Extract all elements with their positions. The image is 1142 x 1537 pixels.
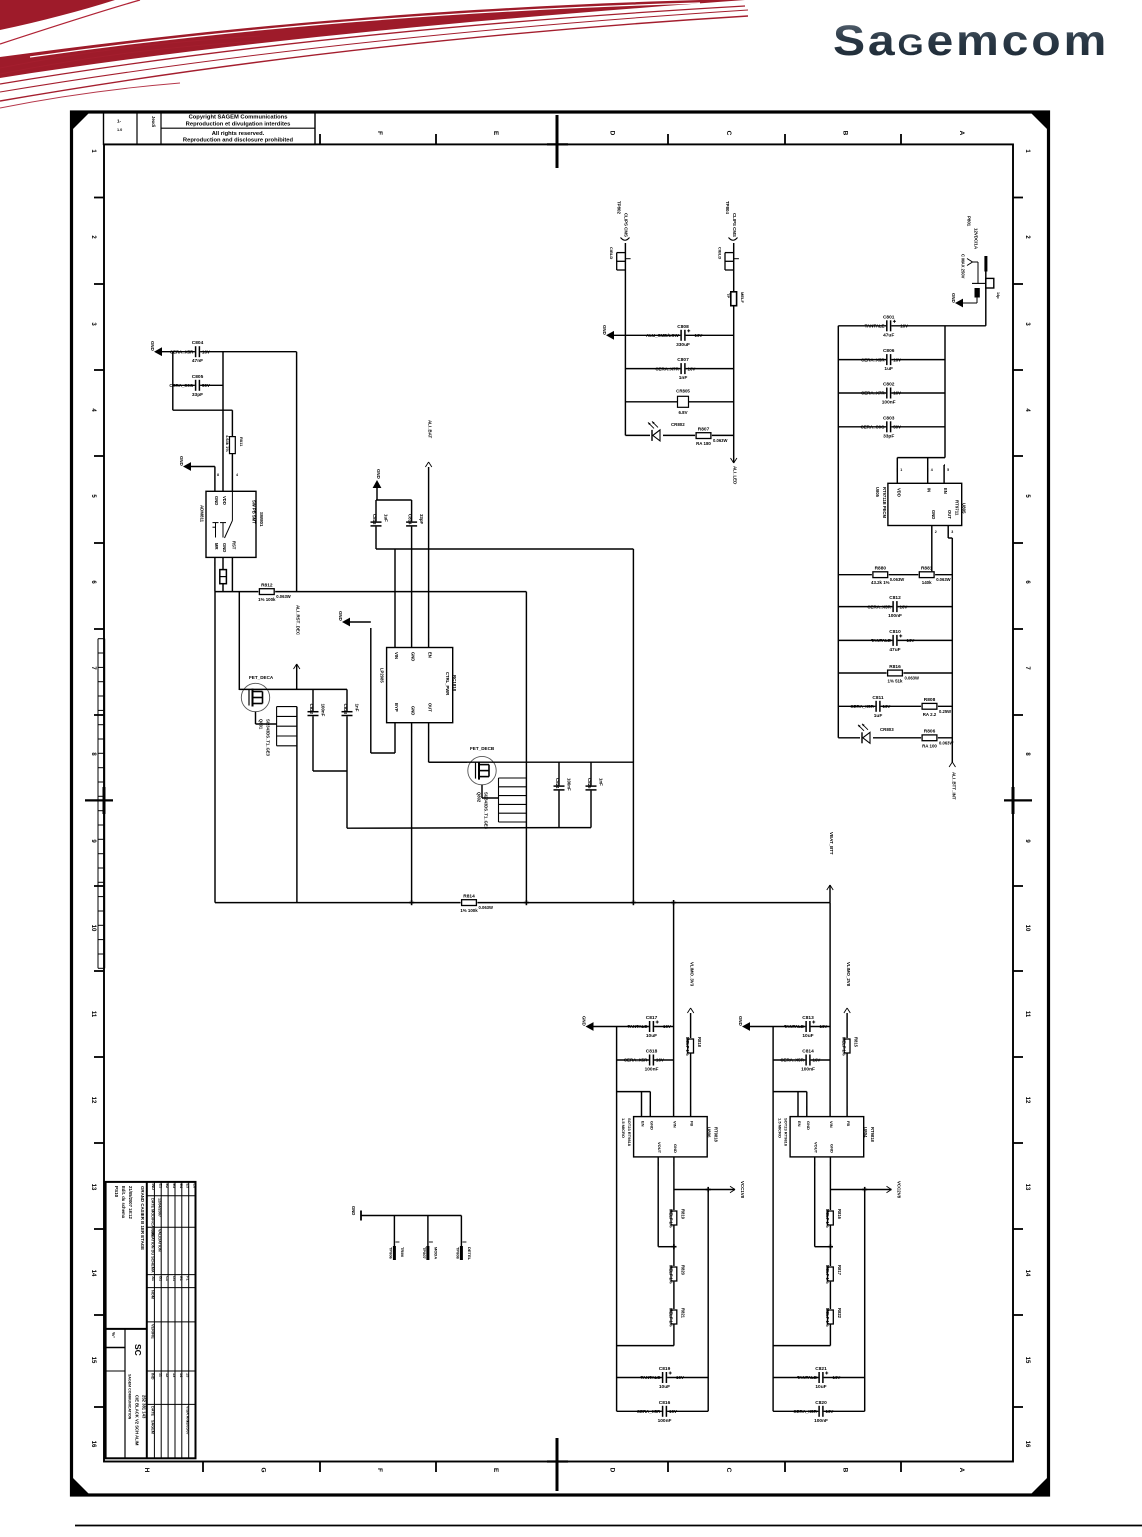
svg-text:15: 15: [186, 1373, 190, 1377]
op-amp U803 ADM811: [200, 491, 265, 557]
op-amp U804: [778, 1117, 875, 1157]
svg-text:U804: U804: [863, 1127, 868, 1138]
svg-text:16V: 16V: [826, 1409, 834, 1414]
svg-text:100nF: 100nF: [801, 1067, 815, 1073]
svg-text:0.063W: 0.063W: [905, 676, 919, 681]
svg-text:C807: C807: [677, 357, 689, 363]
node ALI_RST_DEC: [294, 605, 301, 689]
svg-text:CR805: CR805: [676, 389, 690, 394]
svg-text:C: C: [725, 131, 732, 136]
ground strap testpoints: [351, 1206, 472, 1261]
svg-text:E6: E6: [193, 1184, 197, 1189]
capacitor C803: [861, 415, 902, 439]
wire output pins: [815, 1157, 831, 1247]
ground: [738, 1016, 750, 1031]
svg-text:U805: U805: [962, 503, 967, 514]
svg-text:14p: 14p: [996, 292, 1000, 299]
svg-text:TP807: TP807: [422, 1247, 427, 1260]
svg-text:R806: R806: [924, 729, 936, 735]
svg-text:1nF: 1nF: [355, 704, 360, 712]
frame centre mark top: [547, 115, 568, 168]
svg-text:CIE BLACK V2 SCH ALIM: CIE BLACK V2 SCH ALIM: [135, 1395, 140, 1446]
svg-text:CERA_X5R: CERA_X5R: [850, 704, 874, 709]
svg-text:VERIFIE: VERIFIE: [151, 1324, 155, 1339]
svg-text:C804: C804: [192, 340, 204, 346]
svg-text:1.5 MICRO: 1.5 MICRO: [621, 1118, 626, 1138]
svg-text:C808: C808: [677, 324, 689, 330]
wire feedback to rail: [617, 1345, 674, 1347]
svg-text:D: D: [609, 131, 616, 136]
svg-text:11: 11: [158, 1373, 162, 1377]
svg-text:1: 1: [90, 149, 96, 153]
svg-text:16V: 16V: [893, 391, 901, 396]
svg-text:H: H: [143, 1468, 150, 1473]
wire rung C811 R808: [838, 705, 952, 707]
svg-text:R815: R815: [854, 1037, 859, 1048]
node VCC2V8: [887, 1181, 902, 1199]
svg-text:C1: C1: [165, 1276, 169, 1281]
wire left cap rail: [172, 352, 174, 411]
svg-text:16V: 16V: [833, 1375, 841, 1380]
svg-text:1nF: 1nF: [599, 778, 604, 786]
capacitor C811: [850, 695, 890, 719]
wire Q802 source ladder: [482, 778, 526, 822]
svg-text:GND: GND: [806, 1121, 811, 1130]
svg-text:GRAND CASIER B 1ER ETAGE: GRAND CASIER B 1ER ETAGE: [140, 1186, 145, 1250]
svg-text:CERA_X5R: CERA_X5R: [867, 604, 891, 609]
svg-text:GND: GND: [376, 469, 381, 479]
svg-text:TANTALE: TANTALE: [627, 1024, 647, 1029]
svg-text:ALI_BAT: ALI_BAT: [428, 420, 433, 439]
svg-text:VBAT_BTT: VBAT_BTT: [829, 832, 834, 855]
wire input rail A: [673, 903, 675, 1117]
wire U802 bottom pins: [371, 628, 467, 903]
svg-text:1% 100k: 1% 100k: [460, 908, 478, 913]
wire cap rung C810: [838, 639, 952, 641]
svg-text:CIBLD: CIBLD: [609, 247, 614, 259]
svg-text:VCC2V8: VCC2V8: [897, 1181, 902, 1199]
svg-text:12: 12: [165, 1373, 169, 1377]
Sagemcom logo: [833, 20, 1109, 63]
capacitor C801: [865, 314, 908, 338]
capacitor C817: [627, 1015, 670, 1039]
decorative red swoosh header: [0, 0, 748, 108]
wire CR805 rung: [625, 401, 733, 403]
svg-text:Copyright SAGEM Communications: Copyright SAGEM Communications: [189, 115, 288, 121]
wire U802 top pins: [395, 549, 429, 648]
svg-text:EN: EN: [797, 1121, 802, 1127]
svg-text:IND: IND: [151, 1184, 155, 1191]
svg-text:C810: C810: [889, 629, 901, 635]
svg-text:C814: C814: [407, 514, 412, 525]
svg-text:12VDC/1A: 12VDC/1A: [974, 228, 979, 250]
wire output loop right: [862, 1187, 867, 1411]
svg-text:15: 15: [90, 1357, 96, 1364]
svg-text:13: 13: [1024, 1184, 1030, 1191]
capacitor C813: [370, 514, 389, 527]
wire C804 rung: [162, 351, 297, 353]
svg-text:ADM811: ADM811: [200, 505, 205, 523]
svg-text:11: 11: [1024, 1011, 1030, 1018]
svg-text:1: 1: [900, 468, 902, 472]
svg-text:16V: 16V: [813, 1058, 821, 1063]
capacitor C824: [553, 778, 572, 791]
wire rail to bus: [632, 549, 634, 903]
wire bottom bus: [215, 902, 830, 904]
svg-text:RT9711: RT9711: [955, 500, 960, 516]
wire output to arrow: [830, 1189, 891, 1191]
svg-text:Edit. du schema: Edit. du schema: [121, 1186, 126, 1219]
capacitor C819: [640, 1366, 683, 1390]
svg-text:43.2k 1%: 43.2k 1%: [871, 580, 890, 585]
svg-text:EN: EN: [428, 652, 433, 658]
wire input cap rung 2: [617, 1059, 674, 1061]
svg-text:RT9711B PECM: RT9711B PECM: [882, 487, 887, 518]
wire cap bracket U802: [376, 500, 633, 549]
wire U805 outputs: [932, 526, 953, 763]
svg-text:VALIDATION: VALIDATION: [158, 1229, 162, 1252]
svg-text:RT9818: RT9818: [713, 1127, 718, 1143]
svg-text:CERA_X5R: CERA_X5R: [793, 1409, 817, 1414]
svg-text:VDD: VDD: [896, 488, 901, 497]
svg-text:7: 7: [1024, 666, 1030, 670]
svg-text:CR802: CR802: [671, 422, 685, 427]
wire cap rung 1: [838, 325, 945, 327]
frame centre mark bottom: [547, 1438, 568, 1491]
capacitor C822: [307, 704, 326, 717]
svg-text:GND: GND: [411, 652, 416, 661]
svg-text:SC: SC: [133, 1344, 143, 1356]
svg-text:9: 9: [90, 839, 96, 843]
svg-text:C803: C803: [883, 415, 895, 421]
node ALI_LED: [731, 458, 738, 484]
wire enable bracket: [617, 1092, 691, 1117]
svg-text:14: 14: [1024, 1270, 1030, 1277]
svg-text:6.8V: 6.8V: [678, 410, 687, 415]
wire decoupling loop A: [313, 689, 347, 828]
ground: [373, 469, 382, 500]
svg-text:IN: IN: [927, 488, 932, 492]
svg-text:10: 10: [1024, 925, 1030, 932]
wire output cap rung 2: [773, 1410, 865, 1412]
svg-text:ALI_BTT_INT: ALI_BTT_INT: [951, 772, 956, 800]
svg-text:R880: R880: [875, 566, 887, 572]
svg-text:MELF 1%: MELF 1%: [825, 1265, 830, 1284]
wire LED rung: [625, 434, 733, 436]
svg-text:VIN: VIN: [829, 1121, 834, 1128]
capacitor C821: [797, 1366, 840, 1390]
svg-text:E1: E1: [179, 1276, 183, 1281]
svg-text:G: G: [260, 1467, 267, 1472]
svg-text:C MAX 250V: C MAX 250V: [961, 254, 966, 279]
svg-text:C819: C819: [659, 1366, 671, 1372]
wire R811 to U803: [217, 454, 238, 492]
capacitor C806: [861, 348, 901, 372]
svg-text:33pF: 33pF: [419, 514, 424, 525]
ground: [951, 293, 977, 307]
svg-text:2: 2: [1024, 235, 1030, 239]
capacitor C805: [169, 374, 210, 398]
capacitor C823: [341, 704, 360, 717]
capacitor C814: [780, 1049, 820, 1073]
svg-text:1uF: 1uF: [384, 514, 389, 522]
svg-text:10uF: 10uF: [646, 1033, 657, 1039]
svg-text:R816: R816: [889, 664, 901, 670]
svg-text:16V: 16V: [676, 1375, 684, 1380]
svg-text:CERA_X5R: CERA_X5R: [780, 1058, 804, 1063]
svg-text:C801: C801: [883, 314, 895, 320]
op-amp U802: [380, 648, 458, 723]
svg-text:TRIM: TRIM: [400, 1247, 405, 1257]
svg-text:C817: C817: [646, 1015, 658, 1021]
svg-text:50V: 50V: [893, 425, 901, 430]
svg-text:R816: R816: [837, 1209, 842, 1220]
svg-text:TANTALE: TANTALE: [640, 1375, 660, 1380]
svg-text:E2: E2: [165, 1184, 169, 1189]
svg-text:VDD: VDD: [222, 496, 227, 505]
capacitor C816: [637, 1400, 677, 1424]
svg-text:OUT: OUT: [947, 510, 952, 519]
svg-text:ALU_SMD/LOW: ALU_SMD/LOW: [646, 333, 680, 338]
inner drawing frame: [104, 144, 1013, 1461]
wire TP804 down: [733, 243, 735, 463]
svg-text:3: 3: [951, 530, 953, 534]
svg-text:330uF: 330uF: [676, 342, 690, 348]
svg-text:P801: P801: [967, 216, 972, 227]
svg-text:RA 2.2: RA 2.2: [923, 712, 937, 717]
svg-text:EN: EN: [641, 1121, 646, 1127]
svg-text:C806: C806: [883, 348, 895, 354]
svg-text:TANTALE: TANTALE: [865, 324, 885, 329]
resistor R815: [842, 1037, 859, 1056]
capacitor C804: [170, 340, 210, 364]
svg-text:GND: GND: [150, 341, 155, 351]
wire output to arrow: [674, 1189, 735, 1191]
svg-text:16V: 16V: [688, 366, 696, 371]
svg-text:CLIPS CMS: CLIPS CMS: [732, 213, 737, 237]
svg-text:16V: 16V: [663, 1024, 671, 1029]
svg-text:0.063W: 0.063W: [890, 577, 904, 582]
capacitor C813: [784, 1015, 827, 1039]
svg-text:8: 8: [217, 473, 219, 477]
svg-text:1.0: 1.0: [117, 128, 122, 132]
svg-text:11: 11: [90, 1011, 96, 1018]
svg-text:OUT: OUT: [428, 703, 433, 712]
svg-text:GND: GND: [738, 1016, 743, 1026]
svg-text:Reproduction et divulgation in: Reproduction et divulgation interdites: [186, 121, 291, 127]
svg-text:TP: TP: [726, 293, 731, 298]
LED CR803: [858, 724, 894, 744]
svg-text:Q802: Q802: [477, 792, 482, 803]
svg-text:U805: U805: [875, 487, 880, 498]
svg-text:2: 2: [935, 530, 937, 534]
svg-text:SAGEM: SAGEM: [151, 1420, 155, 1434]
svg-text:CERA_C0G: CERA_C0G: [861, 425, 885, 430]
svg-text:0.063W: 0.063W: [479, 905, 493, 910]
svg-text:DETEL: DETEL: [467, 1247, 472, 1261]
svg-text:C820: C820: [815, 1400, 827, 1406]
svg-text:RA 100: RA 100: [922, 743, 937, 748]
svg-text:C823: C823: [343, 704, 348, 715]
node VCC1V8: [730, 1181, 745, 1199]
capacitor C818: [624, 1049, 664, 1073]
wire Q801 drain: [239, 688, 313, 690]
svg-text:R820: R820: [680, 1265, 685, 1276]
svg-text:16V: 16V: [900, 324, 908, 329]
svg-text:100nF: 100nF: [658, 1418, 672, 1424]
svg-text:SOT23 RT9818: SOT23 RT9818: [627, 1118, 632, 1147]
svg-text:R811: R811: [239, 437, 244, 447]
svg-text:FET_DECB: FET_DECB: [470, 746, 495, 751]
svg-text:C822: C822: [309, 704, 314, 715]
svg-text:8: 8: [1024, 752, 1030, 756]
svg-text:TP808: TP808: [455, 1247, 460, 1260]
svg-text:16: 16: [1024, 1441, 1030, 1448]
wire C807 rung: [625, 368, 733, 370]
svg-text:VLIMO_2V8: VLIMO_2V8: [846, 962, 851, 987]
test point TP804: [725, 201, 738, 240]
wire from P801 to capacitor bank: [945, 271, 986, 326]
svg-text:CLIPS CMS: CLIPS CMS: [624, 213, 629, 237]
svg-text:MELF 1%: MELF 1%: [668, 1209, 673, 1228]
svg-text:C811: C811: [872, 695, 884, 701]
wire output cap rung 1: [617, 1377, 709, 1379]
svg-text:MR: MR: [214, 543, 219, 550]
svg-text:C821: C821: [815, 1366, 827, 1372]
svg-text:A1: A1: [151, 1276, 155, 1281]
svg-text:8: 8: [90, 752, 96, 756]
footer rule: [75, 1525, 1142, 1527]
wire vertical from C804 rung: [296, 352, 298, 592]
svg-text:FET_DECA: FET_DECA: [249, 675, 274, 680]
svg-text:RA 180: RA 180: [696, 441, 711, 446]
op-amp U805: [875, 483, 967, 525]
resistor R819: [668, 1209, 685, 1228]
svg-text:0.063W: 0.063W: [939, 740, 953, 745]
svg-text:0.063W: 0.063W: [936, 577, 950, 582]
svg-text:6: 6: [90, 580, 96, 584]
outer drawing frame: [72, 112, 1049, 1495]
svg-text:GND: GND: [179, 456, 184, 466]
svg-text:GND: GND: [582, 1016, 587, 1026]
resistor R808: [921, 697, 951, 717]
node VLIMO_3V3: [687, 962, 694, 1040]
resistor R817: [825, 1265, 842, 1284]
svg-text:E3: E3: [172, 1184, 176, 1189]
resistor R814: [460, 893, 493, 913]
wire feedback chain: [829, 1190, 831, 1212]
svg-text:E: E: [492, 131, 499, 136]
wire resistor rung R816: [838, 672, 952, 674]
svg-text:16V: 16V: [695, 333, 703, 338]
capacitor C814: [406, 514, 425, 527]
svg-text:NOM: NOM: [151, 1290, 155, 1299]
svg-text:12: 12: [1024, 1097, 1030, 1104]
svg-text:7: 7: [90, 666, 96, 670]
svg-text:5: 5: [1024, 494, 1030, 498]
svg-text:E: E: [492, 1468, 499, 1473]
svg-text:F: F: [376, 131, 383, 135]
svg-text:16V: 16V: [907, 638, 915, 643]
wire feedback to rail: [773, 1345, 830, 1347]
op-amp U806: [621, 1117, 718, 1157]
wire cap rung 3: [838, 392, 945, 394]
svg-text:1: 1: [1024, 149, 1030, 153]
svg-text:MELF 1%: MELF 1%: [668, 1308, 673, 1327]
svg-text:SOT23 RT9818: SOT23 RT9818: [784, 1118, 789, 1147]
svg-text:16: 16: [90, 1441, 96, 1448]
svg-text:5: 5: [90, 494, 96, 498]
svg-text:All rights reserved.: All rights reserved.: [212, 131, 265, 137]
revision ladder left margin: [98, 639, 105, 969]
svg-text:C: C: [725, 1468, 732, 1473]
svg-text:15: 15: [1024, 1357, 1030, 1364]
transistor Q802: [468, 746, 496, 830]
svg-text:VIN: VIN: [394, 652, 399, 659]
wire Q801 source ladder: [256, 707, 297, 903]
resistor R822: [825, 1308, 842, 1327]
svg-text:4: 4: [1024, 408, 1030, 412]
svg-text:C814: C814: [802, 1049, 814, 1055]
svg-text:B: B: [842, 1468, 849, 1473]
wire input cap rung 2: [773, 1059, 830, 1061]
svg-text:B: B: [842, 131, 849, 136]
svg-text:4: 4: [931, 468, 933, 472]
svg-text:3: 3: [1024, 322, 1030, 326]
svg-text:GND: GND: [931, 510, 936, 519]
svg-text:A: A: [958, 1468, 965, 1473]
svg-text:R814: R814: [463, 893, 475, 899]
svg-text:13: 13: [172, 1373, 176, 1377]
svg-text:47uF: 47uF: [889, 647, 900, 653]
svg-text:C812: C812: [889, 595, 901, 601]
svg-text:SW801: SW801: [259, 512, 264, 527]
wire cap rung 4: [838, 426, 945, 428]
resistor R811: [225, 435, 244, 454]
svg-text:CERA_X7R: CERA_X7R: [655, 366, 679, 371]
svg-text:GND: GND: [222, 543, 227, 552]
svg-text:12: 12: [90, 1097, 96, 1104]
svg-text:C802: C802: [883, 382, 895, 388]
wire loop left rail: [214, 592, 216, 903]
svg-text:C818: C818: [646, 1049, 658, 1055]
svg-text:CERA_X5R: CERA_X5R: [861, 357, 885, 362]
svg-text:R807: R807: [698, 426, 710, 432]
svg-text:47nF: 47nF: [192, 358, 203, 364]
svg-text:10uF: 10uF: [659, 1384, 670, 1390]
wire battery rail right: [944, 326, 946, 458]
wire output cap rung 1: [773, 1377, 865, 1379]
svg-text:4: 4: [90, 408, 96, 412]
svg-text:MELF 1%: MELF 1%: [685, 1037, 690, 1056]
svg-text:F: F: [376, 1468, 383, 1472]
svg-text:R812: R812: [261, 582, 273, 588]
svg-text:TP802: TP802: [617, 201, 622, 214]
svg-text:13: 13: [90, 1184, 96, 1191]
svg-text:100nF: 100nF: [567, 778, 572, 791]
svg-text:R817: R817: [837, 1265, 842, 1276]
svg-text:SW PB SMT: SW PB SMT: [251, 500, 256, 524]
svg-text:100nF: 100nF: [645, 1067, 659, 1073]
svg-text:RT9818: RT9818: [870, 1127, 875, 1143]
svg-text:FB: FB: [846, 1121, 851, 1126]
svg-text:GND: GND: [351, 1206, 356, 1215]
capacitor C812: [867, 595, 907, 619]
svg-text:E5: E5: [186, 1184, 190, 1189]
svg-text:CERA_X5R: CERA_X5R: [624, 1058, 648, 1063]
svg-text:C825: C825: [587, 778, 592, 789]
diode CR805: [676, 389, 690, 416]
